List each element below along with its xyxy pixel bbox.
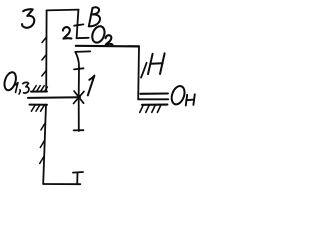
gear 1 bottom T-cap xyxy=(74,129,84,131)
bearing OH ground hatches xyxy=(140,105,161,112)
carrier H top line xyxy=(76,45,139,48)
bearing O1,3 top pad xyxy=(31,91,47,93)
ring gear 3 bottom tooth vertical xyxy=(76,173,78,185)
bearing O1,3 bottom pad xyxy=(30,104,48,106)
ring gear 3 top bar xyxy=(47,9,79,12)
label OH (carrier support) xyxy=(169,84,194,106)
gear 1 (sun) top arm xyxy=(75,50,90,53)
ring gear 3 bottom tooth T-cap xyxy=(73,171,83,174)
gear 2 tooth tick xyxy=(74,24,83,25)
frame wall upper (fixed link 3) xyxy=(45,10,47,91)
label H leader tick xyxy=(141,63,147,78)
frame wall lower hatch ticks xyxy=(40,123,46,164)
bearing O1,3 top pad hatches xyxy=(33,86,48,92)
label O1,3 (central axis) xyxy=(2,71,29,94)
gear 1 tooth tick xyxy=(74,68,84,69)
frame wall lower (fixed link 3) xyxy=(43,105,46,184)
frame wall upper hatch ticks xyxy=(42,37,47,76)
label 2 (planet gear) xyxy=(63,27,72,38)
label 1 (sun gear) xyxy=(88,76,95,96)
bearing OH bottom line xyxy=(142,104,167,106)
joint X at shaft/gear node xyxy=(74,91,85,104)
label H (carrier) xyxy=(148,53,165,74)
gear 2 (planet) vertical line xyxy=(77,10,79,38)
bearing O1,3 bottom pad hatches xyxy=(31,105,44,111)
label 3 (ring gear) xyxy=(22,9,34,28)
label B (mesh point) xyxy=(89,7,100,26)
bearing OH top line xyxy=(140,92,168,94)
gear 2 axle arm at O2 xyxy=(77,37,89,39)
input shaft O1,3 xyxy=(28,96,80,99)
label O2 (planet axis) xyxy=(90,24,112,44)
ring gear 3 bottom bar xyxy=(43,183,80,185)
gear 1 (sun) vertical line xyxy=(75,52,79,131)
bearing OH shaft line xyxy=(138,98,168,100)
carrier H vertical arm xyxy=(137,46,140,99)
